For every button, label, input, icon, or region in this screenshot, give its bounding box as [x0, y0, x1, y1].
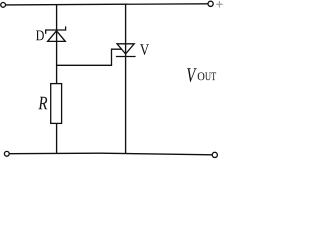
wire: top rail — [6, 4, 208, 5]
label: R — [38, 97, 47, 110]
wire: left branch (zener/resistor leg) — [56, 5, 58, 154]
resistor R — [51, 84, 62, 124]
label: V — [140, 44, 149, 55]
zener diode D — [46, 26, 66, 41]
wire: thyristor branch — [125, 4, 127, 153]
thyristor V — [116, 44, 136, 57]
terminal: bottom-left — [4, 151, 9, 156]
label: + polarity — [216, 1, 223, 8]
terminal: top-right output (+) — [208, 1, 213, 6]
label: D — [36, 31, 44, 41]
label: Vout — [187, 68, 216, 82]
wire: bottom rail — [9, 153, 212, 155]
terminal: top-left input — [1, 3, 6, 8]
wire: gate connection from D/R node to thyristor gate — [57, 49, 122, 65]
terminal: bottom-right — [212, 152, 217, 157]
